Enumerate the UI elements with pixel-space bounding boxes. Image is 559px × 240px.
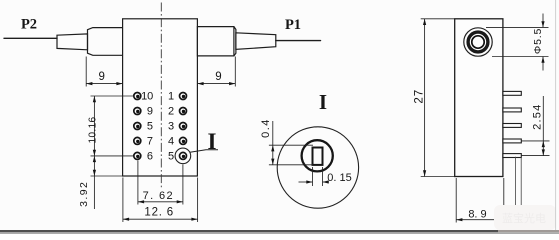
dim 8.9 line <box>456 219 504 221</box>
dim 10.16 line <box>93 96 95 156</box>
svg-text:9: 9 <box>215 71 221 83</box>
dim 27 ext top <box>421 18 455 20</box>
pin grid <box>134 93 187 160</box>
arrow 2.54 bottom <box>542 149 545 155</box>
svg-text:10: 10 <box>141 91 153 103</box>
svg-text:3: 3 <box>168 121 174 133</box>
side view body <box>455 19 503 177</box>
dim phi5.5 line top <box>542 14 544 28</box>
dim 2.54 ext bottom <box>521 155 549 157</box>
fiber pigtail P1 <box>276 40 321 42</box>
fiber pigtail P2 <box>4 37 57 39</box>
svg-text:5: 5 <box>168 151 174 163</box>
svg-text:27: 27 <box>414 89 426 104</box>
arrow 12.6 left <box>123 218 129 221</box>
dim 8.9 ext right <box>503 178 505 223</box>
pin slot <box>313 148 323 165</box>
svg-text:9: 9 <box>98 71 104 83</box>
svg-text:6: 6 <box>147 151 153 163</box>
svg-text:10.16: 10.16 <box>88 116 99 143</box>
svg-text:I: I <box>208 129 217 154</box>
dim 27 line <box>424 19 426 177</box>
pin 10 <box>134 93 141 100</box>
dim phi5.5 line bottom <box>542 57 544 71</box>
arrow phi5.5 top <box>541 21 544 27</box>
arrow 7.62 left <box>138 200 144 203</box>
dim 8.9 ext left <box>455 178 457 223</box>
collimator port bore <box>472 36 484 48</box>
arrow 8.9 left <box>456 218 462 221</box>
svg-text:P1: P1 <box>285 17 301 33</box>
svg-text:1: 1 <box>168 91 174 103</box>
dim 0.15 ext left <box>312 167 314 186</box>
boot P1 <box>236 33 276 50</box>
arrow 3.92 top <box>93 156 96 162</box>
svg-text:7. 62: 7. 62 <box>143 190 174 202</box>
pin ext line a <box>515 157 517 211</box>
pin 7 <box>134 137 141 144</box>
dim 0.4 line <box>272 121 274 165</box>
dim 12.6 line <box>123 218 198 220</box>
arrow 10.16 bottom <box>93 150 96 156</box>
svg-text:9: 9 <box>147 106 153 118</box>
arrow 9 left a <box>86 82 92 85</box>
svg-text:蓝宝光电: 蓝宝光电 <box>502 211 546 225</box>
detail leader line <box>190 150 218 153</box>
side pin 4 <box>503 139 521 143</box>
dim 3.92 ext bottom <box>91 175 123 177</box>
svg-text:0. 15: 0. 15 <box>327 172 351 184</box>
side pin 5 <box>503 154 521 158</box>
pin 5 <box>180 152 187 159</box>
arrow phi5.5 bottom <box>541 57 544 63</box>
svg-text:8. 9: 8. 9 <box>468 209 486 221</box>
dim 0.15 line right <box>323 181 330 183</box>
pin dots <box>136 95 139 98</box>
side pin 2 <box>503 108 521 112</box>
dim 9 right line <box>197 83 235 85</box>
pin 6 <box>134 152 141 159</box>
arrow 27 top <box>423 19 426 25</box>
arrow 9 left b <box>116 82 122 85</box>
dim 7.62 ext left <box>137 161 139 205</box>
boot P2 <box>57 34 88 50</box>
dim 12.6 ext left <box>122 178 124 223</box>
arrow 8.9 right <box>498 218 504 221</box>
dim 10.16 ext bottom / 3.92 shared <box>91 155 134 157</box>
pin 4 <box>180 137 187 144</box>
arrow 10.16 top <box>93 96 96 102</box>
svg-text:12. 6: 12. 6 <box>144 207 174 219</box>
pin ext line b <box>520 157 522 211</box>
barrel cap line right <box>233 27 235 56</box>
dim 2.54 ext top <box>521 140 549 142</box>
arrow 0.15 left <box>306 180 312 183</box>
collimator port outer circle <box>464 28 492 56</box>
arrow 0.4 bottom <box>271 159 274 165</box>
side pin 1 <box>503 91 521 95</box>
pin 9 <box>134 108 141 115</box>
switch body (front view) <box>123 19 198 176</box>
collimator port ring <box>468 32 488 52</box>
svg-text:0.4: 0.4 <box>260 118 272 138</box>
pin 3 <box>180 123 187 130</box>
arrow 0.15 right <box>323 180 329 183</box>
dim 27 ext bottom <box>421 176 455 178</box>
dim phi5.5 ext top <box>486 26 549 28</box>
dim 0.4 ext bottom <box>269 164 313 166</box>
dim 7.62 line <box>138 201 183 203</box>
arrow 12.6 right <box>191 218 197 221</box>
arrow 7.62 right <box>177 200 183 203</box>
side pin 3 <box>503 124 521 128</box>
pin cross-section circle <box>302 140 333 171</box>
dim 0.4 ext top <box>269 144 313 146</box>
pin 2 <box>180 108 187 115</box>
dim phi5.5 ext bottom <box>492 56 549 58</box>
detail mark circle on pin 5 <box>175 148 191 164</box>
svg-text:P2: P2 <box>21 17 37 33</box>
arrow 2.54 top <box>542 141 545 147</box>
detail view circle <box>277 127 358 208</box>
arrow 27 bottom <box>423 170 426 176</box>
dim 9 left ext line <box>85 57 87 87</box>
dim 7.62 ext right <box>182 165 184 205</box>
svg-text:I: I <box>319 90 327 114</box>
svg-text:3.92: 3.92 <box>78 181 90 207</box>
dim 0.15 line left <box>299 181 313 183</box>
dim 9 right ext line <box>234 57 236 87</box>
dim 10.16 ext top <box>91 95 134 97</box>
svg-text:7: 7 <box>147 136 153 148</box>
photo right edge line <box>555 0 557 230</box>
arrow 3.92 bottom <box>93 170 96 176</box>
svg-text:2.54: 2.54 <box>531 104 543 130</box>
arrow 0.4 top <box>271 145 274 151</box>
arrow 9 right b <box>229 82 235 85</box>
centerline of body <box>160 3 162 190</box>
svg-text:2: 2 <box>168 106 174 118</box>
collimator barrel left <box>88 28 123 56</box>
photo bottom edge bar <box>0 230 498 232</box>
svg-text:4: 4 <box>168 136 174 148</box>
arrow 9 right a <box>197 82 203 85</box>
pin 1 <box>180 93 187 100</box>
pin 8 <box>134 123 141 130</box>
collimator barrel right <box>197 27 236 56</box>
dim 9 left line <box>86 83 122 85</box>
dim 0.15 ext right <box>322 167 324 186</box>
svg-text:Φ5.5: Φ5.5 <box>532 28 544 54</box>
dim 12.6 ext right <box>197 178 199 223</box>
svg-text:5: 5 <box>147 121 153 133</box>
dim 3.92 line <box>93 156 95 209</box>
dim 2.54 line <box>542 96 544 156</box>
watermark blob <box>494 205 556 230</box>
